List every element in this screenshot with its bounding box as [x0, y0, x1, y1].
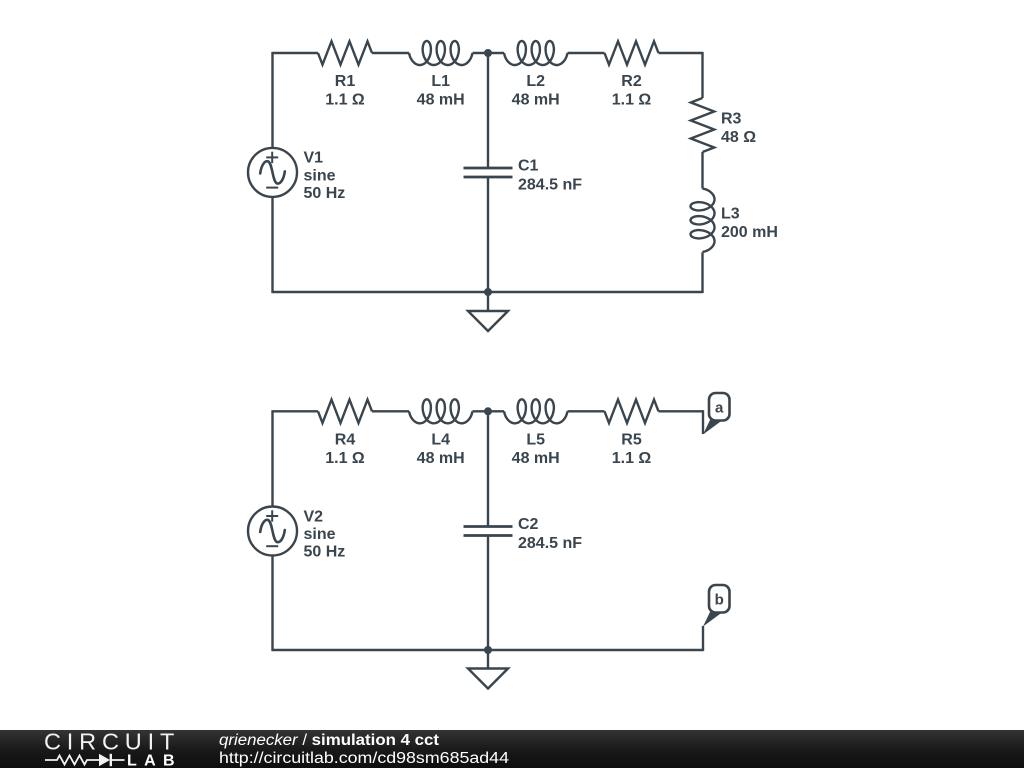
svg-text:qrienecker / simulation 4 cct: qrienecker / simulation 4 cct [219, 732, 439, 749]
CircuitLab logo text LAB [127, 753, 180, 768]
wire C1 to bottom node [487, 177, 489, 292]
resistor R5 [605, 400, 659, 423]
svg-text:48 mH: 48 mH [417, 92, 465, 109]
node junction bottom bottom-circuit [484, 646, 492, 654]
voltage source V1 [248, 148, 297, 197]
label R2 1.1 ohm [612, 73, 652, 109]
wire R2 to top-right corner down to R3 [659, 52, 703, 98]
label L1 48 mH [417, 73, 465, 109]
svg-text:R1: R1 [335, 73, 356, 90]
wire L5 to R5 [568, 410, 605, 412]
inductor L4 [409, 399, 473, 423]
svg-text:48 Ω: 48 Ω [721, 129, 756, 146]
ground top circuit [468, 311, 508, 331]
voltage source V2 [248, 507, 297, 556]
url line [219, 750, 509, 767]
svg-text:sine: sine [304, 167, 336, 184]
svg-text:V1: V1 [304, 150, 324, 167]
label C2 284.5 nF [518, 516, 582, 552]
wire top-left from V2 to R4 [273, 410, 319, 506]
node junction bottom [484, 288, 492, 296]
svg-text:L4: L4 [431, 432, 450, 449]
ground bottom circuit [468, 669, 508, 689]
svg-text:LAB: LAB [127, 753, 180, 768]
CircuitLab logo text CIRCUIT [44, 729, 179, 755]
wire R1 to L1 [372, 52, 409, 54]
wire R4 to L4 [372, 410, 409, 412]
svg-text:1.1 Ω: 1.1 Ω [325, 92, 365, 109]
label R1 1.1 ohm [325, 73, 365, 109]
wire L4 to node [473, 410, 505, 412]
svg-text:L5: L5 [526, 432, 545, 449]
inductor L5 [504, 399, 568, 423]
node junction top [484, 49, 492, 57]
svg-text:1.1 Ω: 1.1 Ω [612, 92, 652, 109]
inductor L1 [409, 41, 473, 65]
svg-text:b: b [715, 592, 724, 609]
svg-text:1.1 Ω: 1.1 Ω [325, 450, 365, 467]
label L5 48 mH [512, 432, 560, 468]
capacitor C1 [464, 168, 513, 177]
svg-text:R2: R2 [621, 73, 642, 90]
wire top-left from V1 to R1 [273, 52, 319, 148]
CircuitLab logo glyph resistor-diode [45, 754, 125, 766]
wire V2 bottom to bottom-left corner [273, 556, 489, 652]
svg-text:48 mH: 48 mH [512, 92, 560, 109]
svg-text:48 mH: 48 mH [512, 450, 560, 467]
credit line qrienecker / simulation 4 cct [219, 732, 439, 749]
svg-text:R3: R3 [721, 111, 742, 128]
wire L3 to bottom-right corner to node [488, 252, 703, 293]
wire L2 to R2 [568, 52, 605, 54]
wire C2 to bottom node [487, 536, 489, 651]
svg-text:48 mH: 48 mH [417, 450, 465, 467]
label V1 sine 50 Hz [304, 150, 346, 202]
label L2 48 mH [512, 73, 560, 109]
label C1 284.5 nF [518, 158, 582, 194]
svg-text:a: a [715, 400, 724, 417]
wire terminal b to bottom-right corner [488, 626, 703, 651]
resistor R4 [318, 400, 372, 423]
svg-text:V2: V2 [304, 508, 324, 525]
svg-text:284.5 nF: 284.5 nF [518, 177, 582, 194]
svg-text:C2: C2 [518, 516, 539, 533]
svg-text:http://circuitlab.com/cd98sm68: http://circuitlab.com/cd98sm685ad44 [219, 750, 509, 767]
label L4 48 mH [417, 432, 465, 468]
wire node down to C2 [487, 411, 489, 526]
wire R3 to L3 [701, 152, 703, 189]
label R5 1.1 ohm [612, 432, 652, 468]
resistor R3 (vertical) [691, 98, 714, 152]
terminal a [703, 393, 730, 435]
label L3 200 mH [721, 206, 778, 242]
label V2 sine 50 Hz [304, 508, 346, 560]
inductor L2 [504, 41, 568, 65]
wire node down to C1 [487, 53, 489, 168]
inductor L3 (vertical) [691, 189, 715, 253]
svg-text:1.1 Ω: 1.1 Ω [612, 450, 652, 467]
wire ground stem bottom circuit [487, 650, 489, 669]
svg-text:L2: L2 [526, 73, 545, 90]
footer bar [0, 730, 1024, 768]
wire ground stem top circuit [487, 292, 489, 311]
svg-text:200 mH: 200 mH [721, 224, 778, 241]
terminal b [703, 585, 730, 627]
svg-text:sine: sine [304, 526, 336, 543]
svg-text:C1: C1 [518, 158, 539, 175]
svg-text:R5: R5 [621, 432, 642, 449]
node junction top bottom-circuit [484, 407, 492, 415]
svg-text:L1: L1 [431, 73, 450, 90]
capacitor C2 [464, 527, 513, 536]
wire V1 bottom to bottom-left corner [273, 197, 489, 293]
resistor R2 [605, 41, 659, 64]
svg-text:50 Hz: 50 Hz [304, 544, 346, 561]
resistor R1 [318, 41, 372, 64]
label R4 1.1 ohm [325, 432, 365, 468]
wire R5 to terminal a [659, 410, 704, 434]
svg-text:L3: L3 [721, 206, 740, 223]
svg-text:50 Hz: 50 Hz [304, 185, 346, 202]
svg-text:R4: R4 [335, 432, 356, 449]
label R3 48 ohm [721, 111, 756, 147]
wire L1 to node [473, 52, 505, 54]
svg-text:284.5 nF: 284.5 nF [518, 535, 582, 552]
